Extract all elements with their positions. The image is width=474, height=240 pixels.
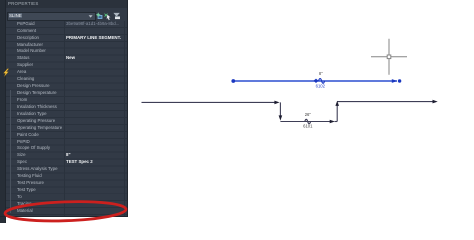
svg-text:26": 26" — [305, 112, 312, 117]
svg-text:6102: 6102 — [316, 83, 326, 88]
svg-text:8": 8" — [319, 71, 323, 76]
svg-text:6101: 6101 — [303, 124, 313, 129]
